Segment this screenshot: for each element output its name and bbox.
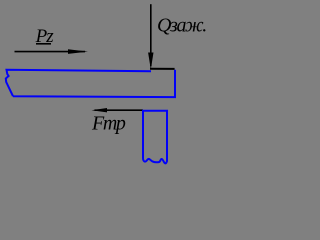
workpiece beam (blue outline with broken left end) xyxy=(6,70,175,97)
clamp force arrow Qзаж (vertical, downward) xyxy=(150,4,152,66)
friction force arrow Fтр (horizontal, leftward) xyxy=(95,109,144,111)
clamp contact line (black, on top of beam right part) xyxy=(150,68,175,70)
svg-text:Fтр: Fтр xyxy=(91,113,126,135)
cutting force arrow Pz (horizontal, rightward) xyxy=(15,51,86,53)
clamp support block (blue, wavy broken bottom) xyxy=(143,111,167,164)
gray canvas background xyxy=(0,0,218,172)
svg-text:Qзаж.: Qзаж. xyxy=(157,14,206,36)
